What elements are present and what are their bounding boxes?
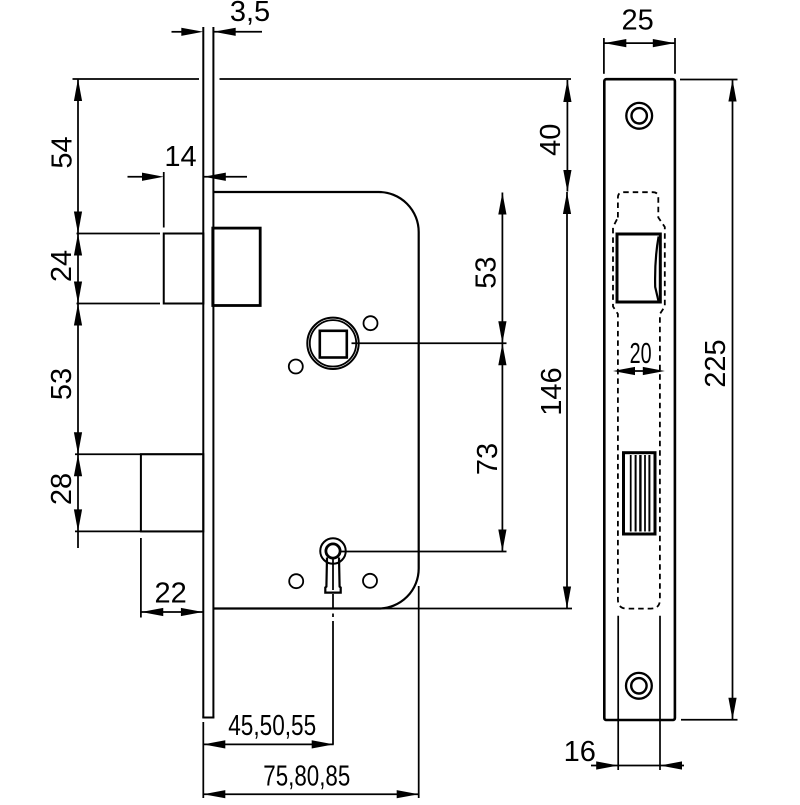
dim 25 bbox=[604, 38, 675, 74]
svg-text:22: 22 bbox=[154, 578, 186, 610]
dim 146 bbox=[566, 192, 568, 609]
dim 225 bbox=[680, 80, 738, 720]
svg-text:24: 24 bbox=[46, 250, 78, 282]
svg-text:225: 225 bbox=[700, 339, 732, 387]
svg-text:20: 20 bbox=[630, 338, 652, 370]
dim 53 right bbox=[501, 193, 503, 345]
spindle follower inner circle bbox=[310, 320, 356, 366]
dim 22 bbox=[141, 538, 203, 618]
dim 53 left arrows bbox=[74, 304, 82, 326]
deadbolt serration lines bbox=[631, 455, 650, 532]
lock case outline (side view) bbox=[214, 192, 419, 609]
dim 20 bbox=[618, 370, 660, 372]
spindle follower outer circle bbox=[307, 318, 358, 369]
latch cutout dashed outline bbox=[613, 192, 665, 608]
dim 73 bbox=[501, 343, 503, 551]
case screw hole left of keyhole bbox=[289, 574, 303, 588]
deadbolt (side view) bbox=[141, 454, 203, 531]
svg-text:53: 53 bbox=[471, 256, 503, 288]
deadbolt top extension bbox=[75, 453, 201, 455]
keyhole inner circle bbox=[326, 544, 340, 558]
svg-text:16: 16 bbox=[564, 736, 596, 768]
dim 45,50,55 bbox=[203, 722, 333, 798]
case screw hole bottom-left of spindle bbox=[289, 360, 303, 374]
top extension line y=79 bbox=[73, 78, 200, 80]
dim 40 bbox=[566, 80, 568, 192]
keyhole stem center line bbox=[332, 559, 334, 591]
spindle extension line bbox=[352, 342, 507, 344]
dim 28 arrows bbox=[74, 454, 82, 476]
keyhole centerline below bbox=[332, 594, 334, 609]
svg-text:3,5: 3,5 bbox=[230, 0, 270, 28]
svg-text:75,80,85: 75,80,85 bbox=[263, 761, 350, 793]
deadbolt bottom extension bbox=[75, 530, 201, 532]
case screw hole right of keyhole bbox=[363, 574, 377, 588]
svg-text:28: 28 bbox=[46, 473, 78, 505]
bottom screw hole outer bbox=[626, 673, 652, 699]
svg-text:14: 14 bbox=[164, 141, 196, 173]
spindle square hole bbox=[320, 331, 347, 358]
svg-text:146: 146 bbox=[536, 367, 568, 415]
svg-text:45,50,55: 45,50,55 bbox=[228, 710, 316, 742]
dim 16 bbox=[591, 765, 684, 767]
svg-text:54: 54 bbox=[46, 136, 78, 168]
16mm extension lines bbox=[617, 616, 619, 770]
latch bolt front view bbox=[617, 234, 660, 302]
deadbolt front view bbox=[624, 453, 656, 534]
case screw hole top-right bbox=[364, 316, 378, 330]
svg-text:40: 40 bbox=[535, 124, 567, 156]
dim 75,80,85 bbox=[203, 586, 419, 798]
keyhole stem bbox=[325, 558, 340, 593]
dim 54 arrows bbox=[74, 79, 82, 101]
top screw hole inner bbox=[632, 108, 647, 123]
latch bolt body (behind plate) bbox=[164, 234, 204, 304]
latch bolt bevel line bbox=[655, 237, 659, 301]
latch top extension bbox=[77, 233, 161, 235]
top screw hole outer bbox=[626, 103, 652, 129]
latch bolt head bbox=[213, 228, 260, 305]
dim 24 arrows bbox=[74, 234, 82, 256]
svg-text:53: 53 bbox=[46, 368, 78, 400]
bottom screw hole inner bbox=[631, 678, 646, 693]
keyhole outer circle bbox=[320, 538, 346, 564]
keyhole extension line bbox=[340, 551, 507, 553]
svg-text:25: 25 bbox=[621, 5, 653, 37]
dim 14 bbox=[128, 172, 248, 228]
faceplate front view outline bbox=[604, 79, 675, 720]
faceplate side view (vertical strip) bbox=[202, 27, 214, 718]
dim 3,5 bbox=[172, 31, 263, 33]
left dim chain vertical line bbox=[77, 79, 79, 548]
latch bottom extension bbox=[77, 303, 161, 305]
svg-text:73: 73 bbox=[472, 443, 504, 475]
